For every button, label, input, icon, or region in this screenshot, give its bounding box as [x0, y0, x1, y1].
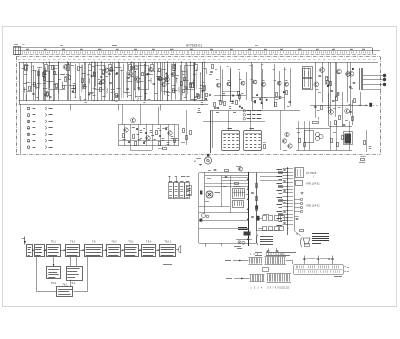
svg-text:AT 760/5: AT 760/5: [306, 171, 317, 175]
svg-text:T9.1: T9.1: [128, 239, 134, 243]
svg-text:P: P: [194, 160, 196, 164]
svg-text:T5.1: T5.1: [51, 239, 57, 243]
svg-text:ATB 124-31: ATB 124-31: [306, 182, 320, 186]
svg-text:S.1: S.1: [71, 281, 76, 285]
svg-text:ATB 124-31: ATB 124-31: [306, 204, 320, 208]
svg-text:T9.4: T9.4: [146, 239, 152, 243]
svg-text:T6.1: T6.1: [70, 239, 76, 243]
svg-text:T8.1: T8.1: [62, 282, 68, 286]
svg-text:AT7618-01: AT7618-01: [186, 44, 202, 48]
svg-text:T5.2: T5.2: [51, 281, 57, 285]
svg-text:T.8: T.8: [92, 239, 96, 243]
svg-text:T10.1: T10.1: [164, 239, 171, 243]
svg-text:T8.3: T8.3: [111, 239, 117, 243]
